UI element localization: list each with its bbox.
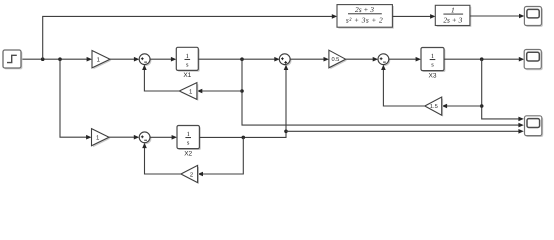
wire: G2 to sum A4 <box>109 135 139 140</box>
wire: branch up to transfer fcn row <box>43 14 338 59</box>
svg-text:X3: X3 <box>429 72 437 79</box>
sum junction A3 (+ -) <box>378 54 390 66</box>
node: junction dot bottom branch <box>58 57 62 61</box>
wire: step output to gain G1 <box>22 57 93 62</box>
wire: sum A3 to integrator X3 <box>389 57 421 62</box>
node: junction dot top branch <box>41 57 45 61</box>
svg-text:s² + 3s + 2: s² + 3s + 2 <box>346 15 383 24</box>
node: junction dot X1 feedback <box>240 89 244 93</box>
node: junction dot X1 output <box>240 57 244 61</box>
wire: G3 to sum A3 <box>346 57 379 62</box>
wire: X1 feedback to gain F1 <box>197 89 242 94</box>
scope S2 <box>524 50 542 71</box>
sum junction A4 (+ -) <box>139 132 151 144</box>
svg-text:1: 1 <box>186 53 189 60</box>
svg-text:X2: X2 <box>184 150 192 157</box>
feedback gain F3 value 1.5 (points left) <box>425 97 443 117</box>
scope S1 <box>524 7 542 27</box>
wire: X1 feedback drop and long line to scope S3 middle port <box>242 59 524 127</box>
wire: sum A2 to gain G3 <box>290 57 329 62</box>
svg-text:1: 1 <box>187 131 190 138</box>
node: junction dot X2 output <box>242 136 246 140</box>
wire: TF2 to scope S1 <box>470 14 525 19</box>
wire: F2 to sum A4 bottom input <box>142 143 181 174</box>
wire: branch down to gain G2 row <box>60 59 92 139</box>
svg-text:1: 1 <box>431 53 434 60</box>
gain G1 value 1 <box>92 51 111 70</box>
transfer function block TF1 2s+3/(s^2+3s+2) <box>337 5 394 29</box>
svg-text:2s + 3: 2s + 3 <box>443 15 462 24</box>
wire: G1 to sum A1 <box>110 57 139 62</box>
gain G3 value 0.5 <box>329 50 347 69</box>
wire: X2 feedback drop to gain F2 <box>198 137 244 176</box>
feedback gain F2 value 2 (points left) <box>181 165 199 184</box>
wire: sum A4 to integrator X2 <box>150 135 177 140</box>
wire: X3 feedback drop and corner to scope S3 top port <box>482 59 524 121</box>
svg-text:1.5: 1.5 <box>430 104 438 110</box>
svg-text:1: 1 <box>451 5 455 14</box>
integrator block X2 (1/s) <box>177 126 201 151</box>
wire: long line from X2 riser to scope S3 bottom port <box>286 129 524 134</box>
step source block <box>3 50 22 69</box>
sum junction A2 (+ +) <box>279 54 291 66</box>
wire: F3 to sum A3 bottom input <box>381 65 425 106</box>
wire: F1 to sum A1 bottom input <box>142 65 179 91</box>
wire: X2 output right then up to sum A2 bottom input <box>199 65 288 138</box>
svg-text:2s + 3: 2s + 3 <box>355 5 374 14</box>
integrator block X3 (1/s) <box>421 48 445 73</box>
gain G2 value 1 (lower path) <box>92 129 111 148</box>
wire: X3 to scope S2 <box>444 57 524 62</box>
node: junction dot X3 output <box>480 57 484 61</box>
wire: sum A1 to integrator X1 <box>150 57 176 62</box>
svg-text:0.5: 0.5 <box>331 57 339 63</box>
node: junction dot on X2 riser <box>284 130 288 134</box>
wire: TF1 to TF2 <box>392 14 435 19</box>
scope S3 (3 inputs) <box>525 116 544 137</box>
svg-text:X1: X1 <box>183 72 191 79</box>
feedback gain F1 value 1 (points left) <box>179 83 198 101</box>
sum junction A1 (+ -) <box>139 54 151 66</box>
integrator block X1 (1/s) <box>176 47 199 72</box>
transfer function block TF2 1/(2s+3) <box>435 5 471 27</box>
wire: X3 feedback to gain F3 <box>442 104 482 109</box>
wire: X1 to sum A2 <box>198 57 279 62</box>
node: junction dot X3 feedback <box>480 104 484 108</box>
